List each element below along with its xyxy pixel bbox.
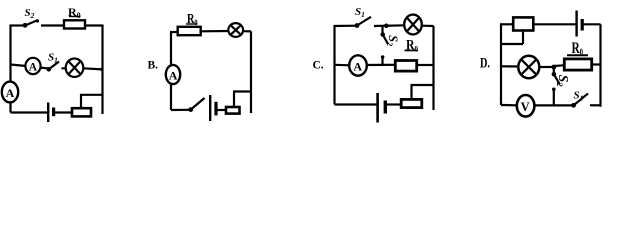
svg-text:S2: S2 — [385, 35, 400, 47]
wire: ammeter to R0 — [367, 64, 396, 66]
wire: top-left to switch S1 — [334, 25, 358, 27]
rheostat slider horizontal to right wire — [233, 90, 252, 92]
node: S2 branch joins top wire — [384, 24, 389, 29]
svg-text:C.: C. — [313, 60, 324, 72]
svg-text:D.: D. — [480, 56, 490, 72]
battery short plate — [214, 102, 217, 116]
wire: lamp to top-right corner — [422, 25, 434, 27]
wire: middle row left segment — [11, 65, 49, 69]
wire: middle row right segment — [62, 68, 103, 69]
switch S1 pivot dot — [47, 67, 52, 72]
svg-text:A: A — [6, 86, 15, 100]
svg-text:S1: S1 — [355, 6, 365, 19]
rheostat box — [226, 107, 240, 114]
wire: right side vertical — [250, 31, 252, 113]
switch blade — [191, 98, 205, 110]
svg-text:A: A — [29, 62, 38, 74]
node: S2 branch joins middle row — [551, 65, 556, 70]
switch S2 branch lower segment — [553, 89, 555, 106]
wire: box to battery — [535, 23, 576, 25]
rheostat slider horizontal to left wire — [500, 43, 523, 45]
wire: left side vertical — [500, 24, 502, 105]
resistor R0 box — [564, 59, 591, 70]
wire: right side vertical — [599, 24, 601, 107]
wire: middle row left segment — [501, 65, 519, 67]
wire: R0 to lamp — [202, 30, 228, 32]
switch S2 lower contact dot — [552, 88, 556, 92]
node: middle row joins right wire — [100, 68, 103, 71]
svg-text:S2: S2 — [25, 7, 35, 20]
battery short plate — [384, 101, 387, 114]
wire: left side vertical — [333, 26, 335, 105]
wire: S1 contact to bottom-right corner — [590, 104, 602, 106]
svg-text:S2: S2 — [555, 75, 571, 88]
rheostat slider vertical — [233, 92, 235, 106]
ammeter A4 — [349, 55, 367, 75]
switch S2 branch upper segment — [381, 26, 383, 35]
wire: R0 to right wire — [593, 63, 601, 65]
wire: right side vertical — [432, 26, 434, 110]
wire: bottom left segment — [11, 111, 48, 113]
svg-text:S1: S1 — [574, 90, 584, 103]
svg-text:B.: B. — [148, 60, 159, 72]
wire: left side vertical — [170, 32, 172, 110]
battery long plate — [47, 103, 49, 123]
switch S2 pivot dot — [380, 32, 385, 37]
rheostat box — [72, 108, 91, 116]
switch S2 branch upper segment — [553, 67, 555, 74]
switch pivot dot — [188, 107, 193, 112]
wire: battery to rheostat — [387, 103, 401, 105]
wire: lamp to top-right corner — [244, 30, 251, 32]
wire: junction to R0 — [554, 64, 564, 67]
rheostat box (top left) — [513, 17, 533, 30]
battery short plate — [52, 108, 55, 117]
svg-text:V: V — [521, 100, 530, 114]
battery long plate — [376, 93, 379, 123]
svg-text:R0: R0 — [187, 12, 198, 27]
switch S1 pivot dot — [355, 23, 360, 28]
wire: bottom left segment — [335, 103, 377, 105]
battery short plate — [581, 19, 584, 31]
label R0 underline — [186, 23, 198, 25]
battery long plate — [575, 11, 577, 37]
switch S1 pivot dot — [571, 103, 576, 108]
wire: bottom-left corner to switch pivot — [171, 109, 189, 111]
switch S2 blade — [25, 20, 38, 26]
resistor R0 box — [64, 20, 85, 28]
label R0 underline — [567, 54, 588, 56]
svg-text:S1: S1 — [48, 52, 58, 65]
lamp L4 — [518, 56, 539, 78]
wire: battery to rheostat — [55, 111, 72, 113]
wire: battery to top-right corner — [584, 23, 601, 25]
switch S2 blade — [383, 35, 388, 45]
wire: top left to switch S2 pivot — [10, 24, 26, 26]
switch S1 blade — [49, 62, 59, 70]
wire: R0 to right wire — [418, 64, 434, 66]
ammeter A2 (left wire) — [2, 82, 18, 103]
battery long plate — [209, 95, 211, 121]
switch S1 blade — [357, 17, 371, 26]
wire: top-left corner to rheostat box — [500, 23, 513, 25]
wire: lamp to junction — [539, 66, 554, 68]
wire: R0 to top-right corner — [86, 24, 103, 26]
wire: voltmeter to S2 junction and S1 pivot — [535, 104, 572, 106]
svg-text:A: A — [169, 68, 178, 82]
wire: battery to rheostat — [218, 109, 226, 111]
switch S2 lower contact dot — [381, 55, 385, 59]
wire: left side vertical — [9, 26, 11, 113]
rheostat slider vertical — [410, 85, 412, 98]
wire: top-left corner to R0 — [170, 31, 177, 33]
ammeter A3 — [166, 65, 180, 84]
switch S2 blade — [554, 74, 560, 84]
wire: right side vertical — [101, 25, 103, 115]
resistor R0 box — [178, 27, 201, 35]
lamp L2 — [228, 23, 243, 37]
voltmeter V1 — [517, 95, 535, 117]
wire: switch to lamp — [374, 24, 405, 27]
wire: switch to resistor R0 — [41, 24, 64, 26]
svg-text:R0: R0 — [68, 5, 81, 20]
switch S1 blade — [574, 94, 588, 106]
switch S2 contact dot — [36, 19, 39, 22]
label R0 underline — [69, 16, 81, 18]
svg-text:A: A — [353, 60, 362, 74]
rheostat slider vertical — [80, 95, 82, 107]
resistor R0 box — [395, 61, 416, 72]
switch S2 pivot dot — [552, 72, 557, 77]
lamp L1 — [66, 58, 84, 76]
label R0 underline — [405, 50, 419, 52]
rheostat slider vertical (below box) — [522, 32, 524, 44]
switch S2 branch lower segment — [381, 56, 383, 66]
lamp L3 — [404, 15, 422, 35]
rheostat slider horizontal to right wire — [411, 84, 435, 86]
rheostat slider horizontal to right wire — [80, 94, 104, 96]
rheostat box — [401, 99, 422, 107]
wire: bottom left segment — [501, 104, 516, 107]
switch S2 pivot dot — [23, 23, 28, 28]
wire: middle row left segment — [335, 64, 351, 67]
ammeter A1 (middle row) — [25, 58, 40, 74]
